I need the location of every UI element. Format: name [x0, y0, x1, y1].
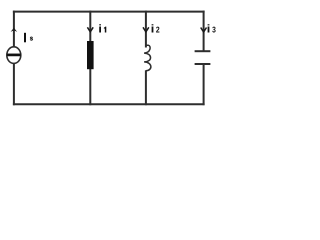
wire branch 2 lower — [145, 70, 147, 105]
label i3 — [208, 24, 216, 32]
resistor (branch 1) — [87, 41, 94, 69]
wire branch 2 upper (inductor branch) — [145, 11, 147, 48]
wire bottom rail — [13, 103, 205, 105]
wire right branch lower — [203, 64, 205, 105]
label i1 — [99, 24, 106, 32]
current arrow i3 — [201, 28, 207, 33]
label i2 — [152, 24, 160, 32]
label Is — [24, 33, 33, 43]
current arrow i2 — [143, 27, 149, 32]
wire branch 1 (resistor branch) — [89, 11, 91, 106]
capacitor C (right branch) — [195, 51, 211, 64]
current arrow i1 — [87, 27, 93, 32]
current source Is — [7, 47, 21, 64]
current arrow Is — [11, 28, 18, 32]
wire right branch upper (capacitor branch) — [203, 11, 205, 51]
wire left branch — [13, 11, 15, 106]
inductor L (branch 2) — [144, 45, 151, 70]
wire top rail — [13, 11, 205, 13]
